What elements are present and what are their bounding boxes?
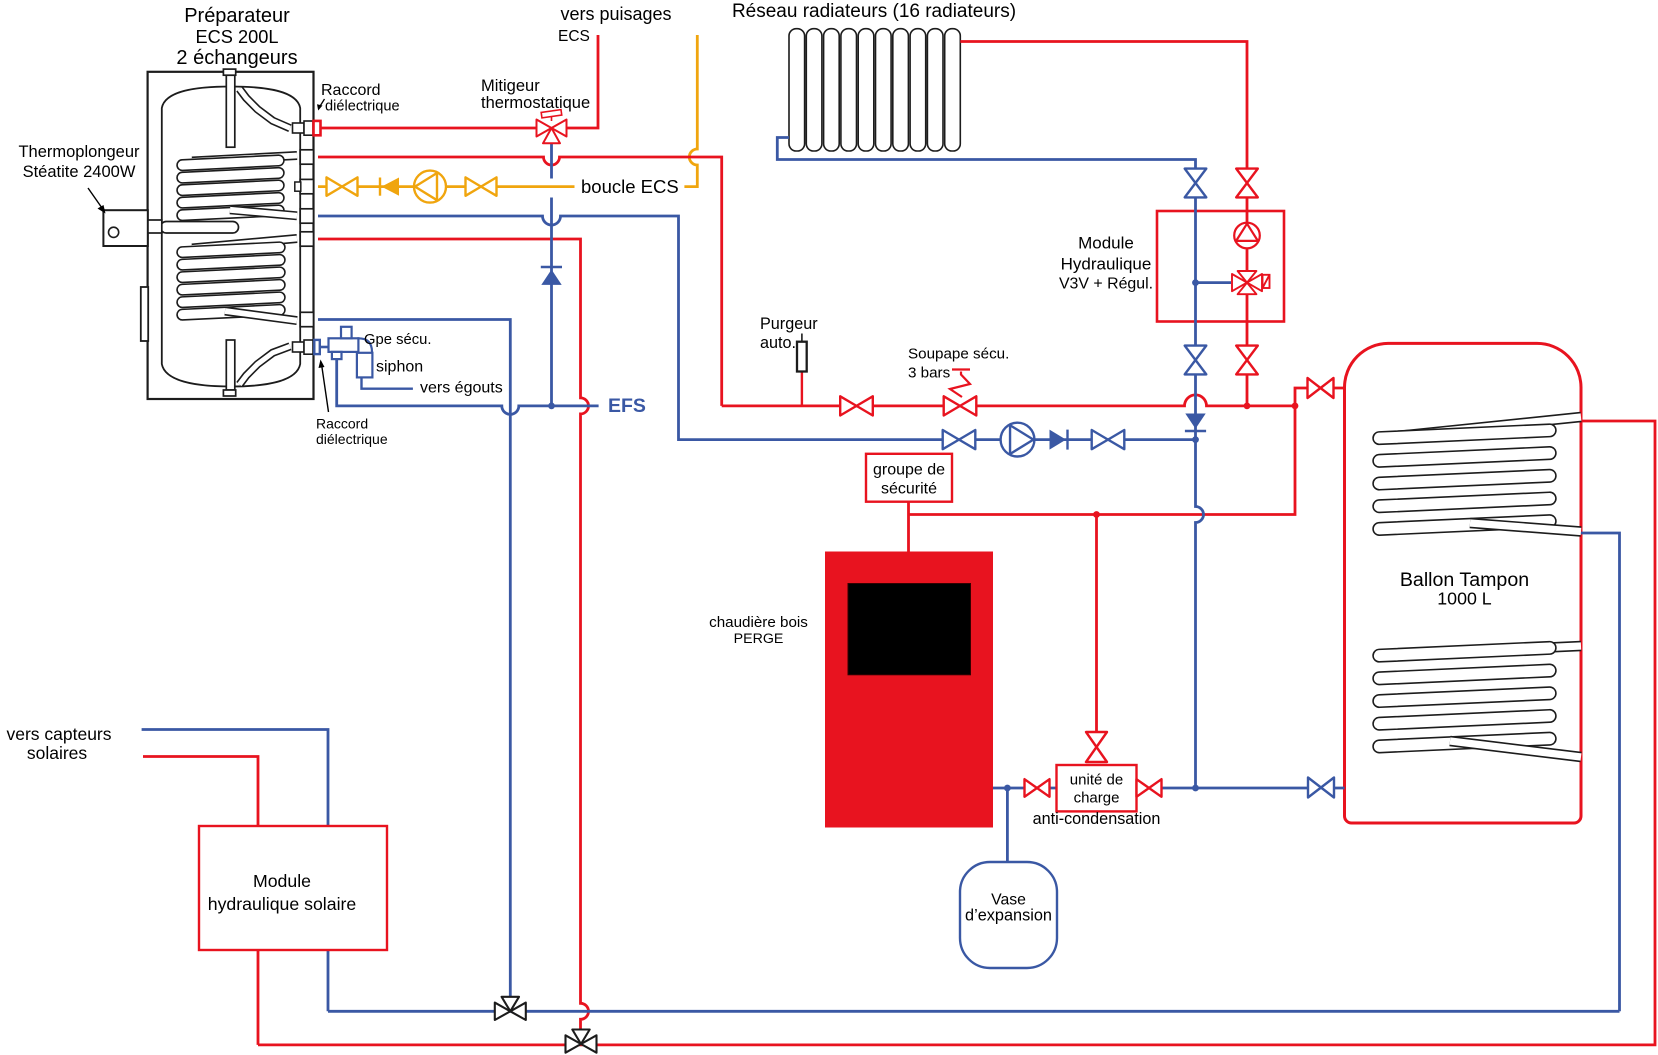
svg-text:Réseau radiateurs (16 radiateu: Réseau radiateurs (16 radiateurs) [732,1,1016,22]
red isolation valve boiler line [840,396,873,415]
gpe secu elbow to siphon [358,338,372,376]
vase d expansion vessel [960,862,1057,968]
svg-text:Thermoplongeur: Thermoplongeur [18,143,140,161]
blue suction isolation valve 2 [1092,430,1125,449]
red pipe down to boiler safety line [909,406,1296,515]
red solar flow bottom line [258,421,1655,1045]
chaudiere bois PERGE body [825,552,993,828]
anode pipe top [226,75,235,147]
svg-text:diélectrique: diélectrique [325,99,400,115]
svg-text:Module: Module [253,871,311,891]
soupape securite spring lever [950,372,970,398]
mitigeur handle [541,110,562,121]
svg-text:vers puisages: vers puisages [560,4,671,24]
ECS outlet port fitting [293,123,305,133]
red ballon inlet valve [1308,378,1334,398]
preparateur inner vessel [162,87,300,387]
blue pipe mitigeur cold feed upper [550,143,553,178]
purgeur auto symbol [797,334,807,372]
radiator network 16 radiators [789,29,960,151]
blue radiator return pipe [777,138,1203,789]
svg-text:vers égouts: vers égouts [420,380,503,397]
svg-text:thermostatique: thermostatique [481,94,590,112]
svg-text:ECS 200L: ECS 200L [196,27,279,47]
blue V3V bypass stub [1196,281,1232,284]
arrow to raccord bottom [322,364,329,412]
raccord dielectrique bottom blue [314,340,320,354]
svg-text:vers capteurs: vers capteurs [6,724,111,744]
blue check valve radiator return [1185,414,1206,432]
svg-text:diélectrique: diélectrique [316,431,388,447]
svg-text:1000 L: 1000 L [1437,589,1491,609]
red pipe solar coil flow with hop under mitigeur line [318,157,722,406]
preparateur ECS outer casing [148,72,314,399]
black solar mixing valve red line [566,1030,597,1053]
raccord dielectrique top red [314,121,321,135]
red module outlet valve [1236,346,1258,375]
V3V three-way mixing valve [1232,271,1262,294]
node ballon return tee [1192,785,1199,792]
ballon lower coil [1387,646,1581,655]
bottom inlet curved tube [240,346,291,384]
lower left mounting tab [141,287,148,341]
svg-text:boucle ECS: boucle ECS [581,176,679,197]
node suction junction [1192,436,1199,443]
chaudiere display screen [848,584,971,675]
svg-text:ECS: ECS [558,28,590,45]
svg-text:Gpe sécu.: Gpe sécu. [364,332,431,348]
vase expansion connection [1006,788,1009,862]
svg-text:Mitigeur: Mitigeur [481,77,540,95]
boiler loading pump [1001,423,1035,457]
boucle ECS yellow pipe from tank [318,185,575,188]
svg-text:hydraulique solaire: hydraulique solaire [208,894,357,914]
vers egouts drain line [362,377,413,388]
arrow to raccord top [320,99,325,107]
svg-text:EFS: EFS [608,395,646,417]
thermoplongeur bracket [103,210,147,246]
svg-text:charge: charge [1074,790,1120,807]
unite de charge box [1057,765,1137,811]
ballon upper coil [1387,417,1581,437]
blue radiator isolation valve [1185,169,1207,198]
EFS check valve [541,267,562,285]
groupe de securite label box [866,454,952,502]
upper heat-exchanger coil [192,156,297,162]
node boiler return tee [1004,785,1011,792]
node red radiator tee [1244,403,1251,410]
V3V actuator [1263,275,1270,288]
gpe secu body [329,338,359,352]
blue pipe tank port6 down left riser [318,320,510,997]
boucle ECS isolation valve 1 [327,177,358,195]
thermoplongeur flange [148,220,162,233]
siphon pot [357,353,373,378]
node unite de charge tee [1093,511,1100,518]
module hydraulique pump [1234,223,1260,249]
svg-text:Module: Module [1078,234,1134,253]
blue solar return bottom line [328,1010,1620,1013]
svg-text:groupe de: groupe de [873,462,945,479]
svg-text:d’expansion: d’expansion [965,907,1052,925]
module hydraulique solaire box [199,826,387,950]
node red ballon tee [1292,403,1299,410]
unite de charge top valve [1086,732,1107,762]
boucle ECS check valve [380,178,399,196]
unite de charge left valve [1025,779,1050,797]
red pipe to ballon top with valve branch [1295,388,1345,406]
module hydraulique V3V box [1157,211,1284,322]
EFS cold water line [337,357,599,414]
node V3V bypass [1192,279,1199,286]
groupe de securite connection pipe [907,502,910,552]
blue ballon bottom valve [1308,778,1334,798]
blue module outlet valve [1185,346,1207,375]
blue pipe tank port4 to boiler suction [318,216,1196,440]
blue solar pipe from module solaire [142,730,328,1012]
blue pipe mitigeur cold feed lower with check valve run [550,198,553,406]
thermoplongeur heating rod [161,222,239,234]
svg-text:chaudière bois: chaudière bois [709,614,808,631]
svg-text:V3V + Régul.: V3V + Régul. [1059,276,1153,293]
red pipe ECS outlet to mitigeur and risers [320,35,598,128]
svg-text:Purgeur: Purgeur [760,315,818,333]
red radiator isolation valve [1236,169,1258,198]
gpe secu relief top [341,327,352,339]
svg-text:solaires: solaires [27,743,88,763]
unite de charge right valve [1137,779,1162,797]
mitigeur thermostatique valve [537,120,567,144]
boucle ECS circulation pump [414,171,446,203]
drain pipe bottom [226,340,235,390]
svg-text:Préparateur: Préparateur [184,5,290,27]
svg-text:anti-condensation: anti-condensation [1033,810,1161,828]
black solar mixing valve blue line [495,997,526,1020]
boucle ECS isolation valve 2 [466,177,497,195]
red solar pipe from module solaire [143,757,258,1045]
svg-text:unité de: unité de [1070,772,1123,789]
node EFS junction [548,403,555,410]
svg-text:Soupape sécu.: Soupape sécu. [908,346,1009,363]
EFS inlet port fitting [293,342,305,352]
blue suction isolation valve 1 [943,430,976,449]
lower heat-exchanger coil [192,239,297,249]
gpe secu drain outlet [332,352,342,359]
svg-text:2 échangeurs: 2 échangeurs [176,47,297,69]
svg-text:Stéatite 2400W: Stéatite 2400W [23,163,136,181]
red pipe to unite de charge [1095,515,1098,734]
svg-text:3 bars: 3 bars [908,365,951,382]
suction line check valve [1050,430,1068,450]
arrow thermoplongeur [88,188,102,208]
svg-text:Raccord: Raccord [321,82,381,99]
purgeur auto stub [801,372,803,406]
svg-text:sécurité: sécurité [881,481,937,498]
soupape securite 3 bars valve [944,396,977,415]
ballon tampon 1000L tank body [1345,343,1582,823]
red pipe tank port5 to bottom solar line [318,239,589,1030]
svg-text:Hydraulique: Hydraulique [1061,255,1152,274]
red main boiler flow line [722,395,1295,406]
top outlet curved tube [240,89,291,128]
tank side ports [295,150,314,327]
blue boiler return line to ballon [993,787,1345,790]
boucle ECS yellow return pipe with hop over red [684,35,697,187]
gpe secu connection pipe [320,346,329,349]
svg-text:Raccord: Raccord [316,416,368,432]
svg-text:auto.: auto. [760,334,796,352]
svg-text:siphon: siphon [376,359,423,376]
svg-text:PERGE: PERGE [734,631,784,647]
blue ballon coil return down right side [1581,533,1620,1011]
red radiator flow pipe [960,42,1247,406]
